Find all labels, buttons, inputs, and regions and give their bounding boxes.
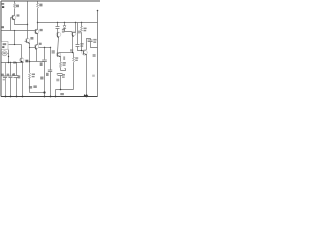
wire collector bus y52 (61, 52, 74, 54)
node rail22 x64.5 (64, 22, 65, 23)
label bottom values b (33, 85, 36, 88)
capacitor C4 (14, 76, 19, 78)
wire rail y44 (9, 44, 22, 46)
wire x73.3 chain (73, 53, 75, 90)
wire x57.5 down (57, 23, 59, 33)
node bus x10.5 (10, 62, 11, 63)
label input (2, 26, 4, 28)
wire cap branch x10.5 (10, 63, 12, 97)
label right border lower (92, 75, 95, 77)
label Q6 (63, 56, 65, 60)
wire top supply rail (1, 0, 100, 2)
wire bias resistor branch (81, 23, 83, 51)
transistor Q5 (56, 32, 61, 37)
node rail44 x14.5 (14, 44, 15, 45)
label R9 value (84, 28, 87, 30)
wire diode to Q7 base (65, 29, 72, 32)
wire Q5 emitter down to Q6 (58, 38, 59, 53)
node x8 mid (8, 56, 9, 57)
node rail22 x81.5 (81, 22, 82, 23)
node bus x8 (8, 62, 9, 63)
node ground x44.5 (44, 96, 46, 98)
label Q2 (40, 29, 43, 31)
capacitor C3 (56, 27, 60, 29)
label near x60 bottom (56, 79, 59, 82)
capacitor C10 (88, 40, 93, 42)
node ground x22.4 (22, 96, 24, 98)
node base junction (81, 50, 82, 51)
wire y47 to caps (39, 47, 51, 49)
label mic (3, 52, 6, 54)
wire Q8 emitter to ground (22, 63, 24, 97)
wire bottom link x29.5 to x44.5 (30, 92, 45, 94)
node x60 y89.5 (60, 89, 62, 91)
label R2 value (39, 4, 42, 7)
node ground x16 (16, 96, 18, 98)
wire cap C5 top lead (44, 48, 46, 60)
node rail62 x16 (15, 62, 16, 63)
label C10 value (93, 39, 96, 41)
label C5 (40, 62, 43, 66)
wire collector feed Q2 (37, 2, 39, 30)
label C8 value (62, 74, 65, 76)
microphone (2, 51, 7, 56)
wire collector feed Q1 (14, 2, 16, 16)
label C2 (7, 74, 10, 77)
emitter resistor squiggle at rail (84, 95, 88, 97)
label C1 (1, 74, 3, 77)
label bottom values a (29, 86, 32, 89)
capacitor C6 (48, 70, 52, 72)
node ground x86.3 (86, 96, 88, 98)
transistor Q9 (82, 50, 87, 56)
wire bottom link y89.5 (56, 90, 74, 97)
capacitor C1 (3, 76, 7, 78)
label Q1 (17, 14, 20, 16)
wire right rail (97, 11, 99, 97)
transistor Q1 (11, 15, 16, 20)
label B+ top left (2, 3, 5, 5)
node rail junction x37.6 (37, 22, 38, 23)
node x44.5 (44, 47, 45, 48)
resistor R6 (29, 73, 31, 79)
node ground x10.5 (10, 96, 12, 98)
label on ground bus (13, 62, 16, 64)
resistor R1 (13, 4, 15, 9)
wire mid vertical from rail to Q3 (27, 2, 29, 39)
transistor Q8 (20, 45, 24, 63)
resistor R12 (73, 58, 75, 63)
wire left border (0, 1, 2, 97)
node ground x50 (50, 96, 52, 98)
wire Q3 emitter chain (29, 44, 31, 93)
label R12 value (75, 57, 78, 59)
capacitor C9 (76, 45, 80, 47)
wire mic to bus (8, 50, 9, 63)
label value left of C5 lead (40, 77, 43, 80)
resistor R11 (59, 62, 61, 68)
wire earphone hook (61, 69, 66, 71)
capacitor C2 (8, 76, 12, 78)
label R11 value (63, 62, 66, 64)
wire cap branch x16 (16, 63, 18, 97)
wire cap branch x5 (5, 63, 7, 97)
label Q5 (62, 29, 65, 31)
node Q1 emitter junction (27, 24, 28, 25)
wire Q9 collector up and over (87, 39, 91, 50)
label above bus (70, 49, 73, 51)
resistor R9 (81, 27, 83, 33)
wire input rail y30 (2, 30, 35, 32)
wire ground bus left y62.6 (2, 62, 24, 64)
wire C10 to output rail (91, 42, 98, 48)
wire Q6 emitter chain (60, 57, 62, 90)
transistor Q4 (34, 44, 39, 49)
wire Q9 emitter down (86, 55, 88, 97)
wire Q4 emitter down (36, 50, 38, 62)
label Q4 (39, 43, 42, 45)
wire Q1 base down (10, 18, 12, 31)
label on ground rail (60, 93, 64, 95)
transistor Q7 (71, 31, 76, 36)
wire C5 bottom lead (44, 62, 46, 97)
transistor Q2 (34, 29, 39, 34)
label C9 (80, 43, 83, 45)
wire Q2 emitter down to Q4 collector (37, 34, 39, 45)
node battery terminal (97, 10, 99, 12)
wire diode anode lead (64, 23, 66, 26)
label C4 value right (18, 75, 21, 78)
label C6 (46, 73, 49, 76)
transistor Q3 (25, 38, 30, 43)
node rail22 x57.5 (57, 22, 58, 23)
node x50 (50, 47, 51, 48)
wire Q4 base lead (30, 47, 35, 49)
label Q3 (30, 37, 33, 40)
label terminal mark (2, 6, 4, 8)
capacitor C8 (58, 74, 63, 76)
wire coupling cap feed x77.7 (78, 23, 84, 51)
label near right border mid (93, 54, 96, 57)
label C4 (13, 73, 15, 76)
label C8 plus (57, 73, 58, 74)
node Q3 emitter junction (29, 61, 31, 63)
node rail30 x14.5 (14, 30, 15, 31)
capacitor C5 (42, 60, 47, 62)
wire second rail y22 (38, 22, 98, 24)
wire Q1 emitter to node (15, 20, 28, 25)
node base lead start (29, 47, 30, 48)
label x50 (52, 50, 55, 53)
wire bottom ground rail (1, 96, 98, 98)
label left of junction (25, 60, 28, 63)
node thermistor blob (43, 91, 45, 93)
node rail22 x75.5 (75, 22, 76, 23)
node ground x5 (5, 96, 7, 98)
node x72.7 (72, 52, 73, 53)
label Q7 (78, 31, 81, 34)
label inside box (3, 43, 7, 45)
wire link rail30 to rail44 (14, 31, 16, 45)
node ground x55.5 (55, 96, 57, 98)
diode D1 (63, 26, 66, 29)
wire Q7 collector lead (75, 23, 77, 33)
label R6 value (32, 74, 35, 76)
resistor R2 (37, 4, 39, 9)
wire x50 branch (50, 48, 52, 97)
wire emitter bus y61.5 (30, 61, 45, 63)
wire Q7 emitter down (72, 37, 74, 53)
transistor Q6 (56, 52, 61, 57)
input device box (1, 42, 8, 50)
label R1 value (16, 5, 19, 8)
